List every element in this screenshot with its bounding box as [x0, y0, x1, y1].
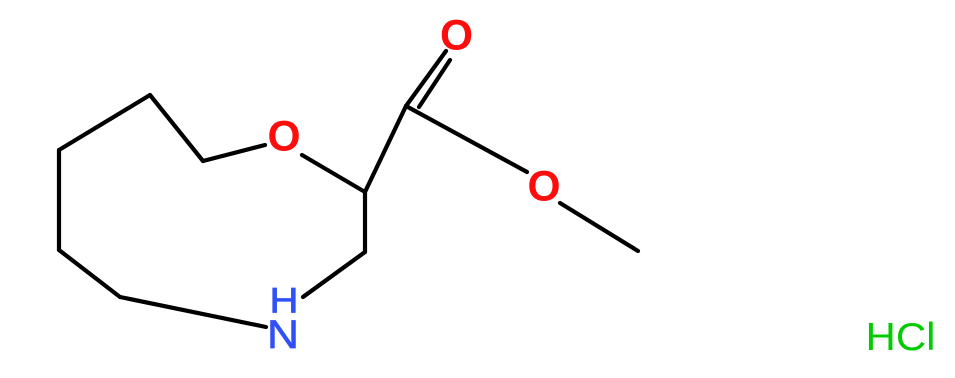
bond C6-C7: [57, 150, 61, 250]
bond C8-C9: [150, 95, 203, 161]
bond N4-C5: [120, 297, 266, 327]
svg-text:O: O: [527, 164, 560, 211]
bond C9-O1: [203, 145, 265, 161]
svg-text:HCl: HCl: [866, 316, 936, 359]
bond C3-N4: [303, 252, 365, 297]
svg-text:H: H: [270, 282, 299, 321]
bond C2-C3: [363, 192, 367, 252]
bond C=O inner line: [419, 60, 450, 107]
bond C2-C(carbonyl): [365, 106, 406, 192]
bond C(carbonyl)-O(ester): [406, 106, 527, 172]
svg-text:O: O: [440, 13, 473, 60]
bond O(ester)-CH3: [560, 203, 638, 251]
bond O1-C2: [302, 155, 365, 192]
bond C=O main line: [406, 51, 446, 106]
bond C7-C8: [59, 95, 150, 150]
svg-text:O: O: [267, 114, 300, 161]
bond C5-C6: [59, 250, 120, 297]
